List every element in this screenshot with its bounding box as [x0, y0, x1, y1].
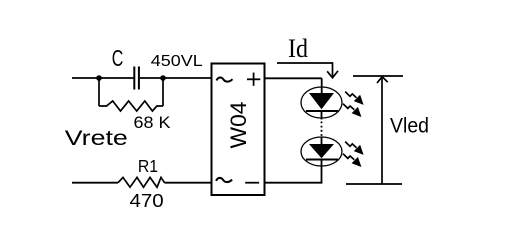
wire: top input lead	[72, 77, 212, 79]
svg-text:W04: W04	[226, 102, 251, 149]
LED D2 light arrows	[345, 142, 363, 154]
wire: bottom input lead	[72, 182, 212, 184]
svg-text:Id: Id	[288, 34, 308, 63]
dimension Vled: top tick	[353, 75, 403, 77]
resistor R1	[118, 177, 165, 187]
U1 pin symbol: plus	[247, 73, 260, 86]
svg-text:R1: R1	[138, 156, 158, 176]
U1 pin symbol: bottom AC tilde	[216, 178, 232, 182]
wire: bottom rail LED string to bridge -	[265, 182, 323, 184]
U1 pin symbol: minus	[245, 182, 259, 184]
node B junction dot (right)	[160, 75, 166, 81]
bridge rectifier U1 body (W04)	[212, 64, 265, 196]
dimension Vled: vertical line with top arrowhead	[377, 77, 388, 185]
capacitor C plates	[134, 67, 139, 90]
resistor 68K (parallel branch)	[99, 77, 163, 111]
svg-text:C: C	[112, 45, 124, 71]
LED D1 anode triangle	[309, 93, 334, 109]
LED D2 body circle	[301, 137, 342, 166]
svg-text:Vrete: Vrete	[65, 127, 128, 150]
LED D1 cathode bar	[306, 110, 338, 112]
LED D2 anode triangle	[309, 144, 334, 158]
svg-text:470: 470	[130, 190, 164, 211]
U1 pin symbol: top AC tilde	[217, 77, 233, 81]
wire: D2 cathode down to bottom rail	[321, 160, 323, 183]
LED D1 body circle	[301, 87, 342, 118]
svg-text:450VL: 450VL	[151, 53, 203, 70]
wire: dotted link D1 to D2	[321, 122, 323, 138]
node A junction dot (left)	[96, 75, 102, 81]
LED D1 light arrows	[345, 92, 363, 104]
wire: D1 cathode stub	[321, 111, 323, 120]
svg-text:Vled: Vled	[390, 115, 429, 138]
current arrow Id	[277, 63, 338, 78]
dimension Vled: bottom tick	[346, 183, 402, 185]
svg-text:68 K: 68 K	[134, 113, 172, 132]
wire: D2 anode stub	[321, 137, 323, 144]
wire: bridge + output to LED anode	[265, 78, 322, 93]
LED D2 cathode bar	[306, 159, 338, 161]
